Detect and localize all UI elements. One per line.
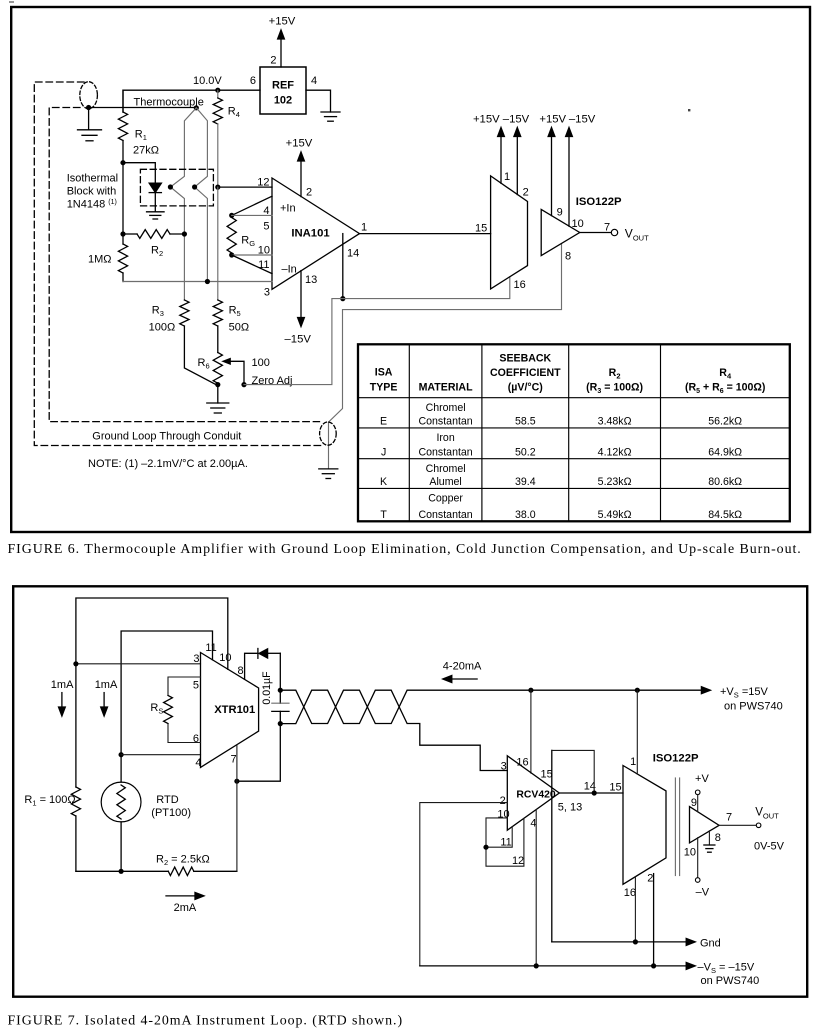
- svg-text:5: 5: [263, 220, 269, 232]
- svg-text:–In: –In: [282, 263, 297, 275]
- wire RCV420 offset pins 10-11-12 loop: [486, 818, 524, 866]
- wire -In line (pin 3): [123, 281, 272, 283]
- twisted pair bottom conductor: [280, 690, 507, 770]
- svg-text:5, 13: 5, 13: [558, 802, 582, 814]
- wire capacitor bottom to pin 7 node: [237, 724, 280, 782]
- instrumentation amplifier U2 INA101: [272, 178, 360, 289]
- resistor R1 27k: [122, 90, 124, 112]
- wire feedback top link to pin 14: [552, 750, 594, 793]
- figure 7 frame: [13, 586, 807, 996]
- svg-text:5.23kΩ: 5.23kΩ: [598, 476, 632, 488]
- svg-text:1: 1: [630, 756, 636, 768]
- svg-text:8: 8: [237, 665, 243, 677]
- svg-text:4: 4: [263, 205, 269, 217]
- wire iso output pin 7: [580, 232, 612, 234]
- 1mA arrow (left): [61, 693, 63, 709]
- iso out -15V arrow pin 10: [568, 135, 570, 227]
- svg-text:1mA: 1mA: [51, 679, 74, 691]
- svg-text:5.49kΩ: 5.49kΩ: [598, 509, 632, 521]
- svg-text:(µV/°C): (µV/°C): [508, 382, 543, 394]
- wire XTR101 pin 7 down to bottom rail: [236, 745, 238, 872]
- svg-text:+In: +In: [280, 203, 296, 215]
- wire to diode anode: [123, 163, 155, 183]
- svg-text:80.6kΩ: 80.6kΩ: [708, 476, 742, 488]
- wire +V to pin 9: [697, 795, 699, 812]
- wire +15V to REF102 pin 2: [278, 30, 285, 67]
- svg-text:INA101: INA101: [291, 228, 329, 240]
- svg-text:4.12kΩ: 4.12kΩ: [598, 446, 632, 458]
- wire RG top to pin 4 (slant): [232, 196, 272, 215]
- node RG bottom: [229, 252, 234, 257]
- resistor R1 100 (fig7): [75, 664, 77, 787]
- wire +Vs rail: [531, 689, 703, 691]
- svg-text:Isothermal: Isothermal: [67, 173, 118, 185]
- svg-text:1MΩ: 1MΩ: [88, 254, 112, 266]
- svg-text:11: 11: [500, 836, 511, 848]
- terminal VOUT (fig7): [756, 823, 761, 828]
- wire bottom rail (R2): [76, 870, 168, 872]
- svg-text:REF: REF: [272, 80, 294, 92]
- resistor R5 50: [213, 300, 222, 326]
- node R6 bottom / ground: [215, 382, 220, 387]
- svg-text:Constantan: Constantan: [419, 509, 473, 521]
- svg-text:10.0V: 10.0V: [193, 75, 222, 87]
- wire RCV420 pin 4 drop: [535, 810, 537, 966]
- svg-text:100Ω: 100Ω: [149, 322, 176, 334]
- svg-text:ISO122P: ISO122P: [653, 753, 699, 765]
- svg-text:3: 3: [193, 653, 199, 665]
- svg-text:16: 16: [624, 887, 636, 899]
- svg-text:Constantan: Constantan: [419, 446, 473, 458]
- svg-text:8: 8: [715, 832, 721, 844]
- svg-text:–15V: –15V: [569, 113, 596, 125]
- 1mA arrow (right): [103, 693, 105, 709]
- svg-text:Ground Loop Through Conduit: Ground Loop Through Conduit: [92, 431, 241, 443]
- svg-text:1: 1: [361, 221, 367, 233]
- svg-text:T: T: [380, 509, 387, 521]
- svg-text:4-20mA: 4-20mA: [443, 661, 482, 673]
- svg-text:4: 4: [195, 757, 201, 769]
- svg-text:10: 10: [684, 847, 696, 859]
- node RCV420 pin 4 to -Vs: [534, 963, 539, 968]
- voltage reference U1 REF102: [260, 67, 306, 114]
- wire RCV420 pin 16 drop: [530, 690, 532, 773]
- resistor R3 100: [180, 300, 189, 326]
- 2mA arrow: [166, 895, 197, 897]
- svg-text:–15V: –15V: [285, 333, 312, 345]
- wire ISO122P pin 2 drop to -Vs: [653, 874, 655, 966]
- svg-text:(R3 = 100Ω): (R3 = 100Ω): [586, 382, 643, 396]
- ground (diode cathode): [147, 211, 165, 213]
- svg-text:100: 100: [252, 357, 270, 369]
- scan speck top-left: [9, 1, 14, 3]
- svg-text:2: 2: [270, 55, 276, 67]
- svg-text:102: 102: [274, 95, 292, 107]
- svg-text:1mA: 1mA: [95, 679, 118, 691]
- svg-text:13: 13: [305, 274, 317, 286]
- svg-text:–VS = –15V: –VS = –15V: [698, 962, 755, 976]
- isolation amplifier input section (ISO122P): [491, 176, 528, 289]
- svg-text:9: 9: [691, 797, 697, 809]
- svg-text:6: 6: [250, 75, 256, 87]
- svg-text:15: 15: [475, 222, 487, 234]
- iso out +15V arrow pin 9: [551, 135, 553, 216]
- svg-text:4: 4: [530, 817, 536, 829]
- node offset pins common: [483, 845, 488, 850]
- wire 10.0V line REF102 pin 6: [123, 90, 260, 112]
- svg-text:7: 7: [230, 754, 236, 766]
- node RTD bottom: [119, 869, 124, 874]
- node RCV420 pin 16 branch: [528, 688, 533, 693]
- svg-text:+V: +V: [695, 773, 709, 785]
- figure 6 frame: [11, 7, 810, 532]
- isolation amplifier input section (fig7 ISO122P): [623, 766, 666, 885]
- svg-text:–15V: –15V: [503, 113, 530, 125]
- wire loop + conductor down to capacitor: [279, 653, 281, 703]
- wire XTR101 pin 8 to loop diode: [245, 653, 257, 679]
- svg-text:3.48kΩ: 3.48kΩ: [598, 416, 632, 428]
- svg-text:on PWS740: on PWS740: [724, 701, 783, 713]
- svg-text:Thermocouple: Thermocouple: [134, 97, 204, 109]
- svg-text:RTD: RTD: [156, 794, 178, 806]
- svg-text:12: 12: [512, 855, 524, 867]
- svg-text:–V: –V: [696, 887, 710, 899]
- wire ISO122P pin 1 riser: [636, 690, 638, 774]
- wire node to INA101 pin 12: [218, 186, 272, 188]
- wire thermocouple negative lead horizontal: [89, 107, 197, 109]
- svg-text:MATERIAL: MATERIAL: [419, 382, 473, 394]
- node earth / thermocouple shield: [86, 105, 91, 110]
- svg-text:FIGURE 7. Isolated 4-20mA Inst: FIGURE 7. Isolated 4-20mA Instrument Loo…: [8, 1014, 404, 1029]
- wire INA101 output pin 1 to iso amp pin 15: [360, 233, 491, 235]
- diode D1 1N4148: [149, 183, 161, 192]
- current receiver U5 RCV420: [507, 756, 559, 830]
- svg-text:ISA: ISA: [375, 367, 393, 379]
- svg-text:50.2: 50.2: [515, 446, 536, 458]
- svg-text:16: 16: [516, 757, 528, 769]
- wire RCV420 output to ISO122P pin 15: [559, 792, 623, 794]
- wire -Vs rail: [420, 965, 687, 967]
- iso amp +15V arrow pin 1: [500, 135, 502, 184]
- svg-text:10: 10: [572, 218, 584, 230]
- svg-text:Gnd: Gnd: [700, 938, 721, 950]
- node R2 right: [182, 231, 187, 236]
- wire top loop (pin 10 supply): [76, 598, 228, 669]
- ground (R6 bottom): [217, 385, 219, 403]
- gain resistor RG: [227, 218, 236, 254]
- ground (conduit earth): [319, 468, 338, 470]
- svg-text:15: 15: [609, 781, 621, 793]
- wire output pin 7 to VOUT: [719, 824, 756, 826]
- svg-text:Alumel: Alumel: [429, 476, 461, 488]
- terminal +V: [695, 790, 700, 795]
- svg-text:Iron: Iron: [436, 432, 454, 444]
- wire ISO122P pin 16 drop to Gnd: [634, 877, 636, 942]
- svg-text:2: 2: [306, 186, 312, 198]
- svg-text:K: K: [380, 476, 387, 488]
- wire R5 to R6: [217, 326, 219, 353]
- svg-text:2: 2: [647, 872, 653, 884]
- wire RG top to pin 5: [232, 214, 272, 216]
- node ISO122P pin 1 branch: [635, 688, 640, 693]
- svg-text:NOTE: (1) –2.1mV/°C at 2.00µA.: NOTE: (1) –2.1mV/°C at 2.00µA.: [88, 458, 248, 470]
- wire pin 4: [121, 754, 200, 756]
- svg-text:on PWS740: on PWS740: [701, 975, 760, 987]
- potentiometer R6: [213, 353, 222, 384]
- svg-text:11: 11: [258, 259, 269, 271]
- svg-text:Block with: Block with: [67, 186, 117, 198]
- svg-text:50Ω: 50Ω: [229, 322, 249, 334]
- svg-text:+15V: +15V: [539, 113, 566, 125]
- svg-text:58.5: 58.5: [515, 416, 536, 428]
- node pin 4 branch: [119, 752, 124, 757]
- resistor R2 2.5k (fig7): [168, 867, 194, 875]
- node wiper to zero-adj wire: [241, 382, 246, 387]
- svg-text:(PT100): (PT100): [151, 807, 191, 819]
- dashed ground loop inner left run: [49, 108, 319, 422]
- svg-text:2: 2: [523, 186, 529, 198]
- svg-text:12: 12: [257, 177, 269, 189]
- conduit ellipse (dashed): [320, 422, 337, 445]
- scan speck right: [688, 109, 690, 111]
- svg-text:FIGURE 6. Thermocouple Amplifi: FIGURE 6. Thermocouple Amplifier with Gr…: [8, 542, 802, 557]
- node isothermal junction A: [168, 184, 173, 189]
- R6 wiper arrow: [223, 359, 230, 364]
- svg-text:R1 = 100Ω: R1 = 100Ω: [24, 794, 75, 808]
- svg-text:14: 14: [347, 248, 359, 260]
- svg-text:38.0: 38.0: [515, 509, 536, 521]
- isolation barrier bars: [674, 778, 676, 876]
- node thermocouple wire B to -In: [205, 279, 210, 284]
- resistor RS: [164, 696, 173, 724]
- conduit entry ellipse (dashed): [80, 82, 98, 109]
- svg-text:10: 10: [497, 809, 509, 821]
- RTD sensor PT100: [120, 755, 122, 782]
- wire pin 3 input: [76, 663, 201, 665]
- svg-text:J: J: [381, 446, 386, 458]
- isolation output op amp (fig7): [690, 807, 720, 843]
- wire second loop (pin 11): [121, 631, 212, 755]
- svg-text:15: 15: [541, 769, 553, 781]
- svg-text:+15V: +15V: [269, 16, 296, 28]
- node R2 left: [120, 231, 125, 236]
- node pin 14 output junction: [592, 790, 597, 795]
- resistor R2 (horizontal): [137, 230, 170, 239]
- terminal VOUT (fig6): [611, 229, 617, 235]
- svg-text:TYPE: TYPE: [370, 382, 398, 394]
- wire thermocouple wire A (left, gray): [170, 108, 196, 300]
- svg-text:RCV420: RCV420: [516, 790, 555, 801]
- svg-text:16: 16: [514, 279, 526, 291]
- reverse protection diode D2: [257, 649, 259, 659]
- svg-text:Chromel: Chromel: [426, 402, 466, 414]
- svg-text:+15V: +15V: [473, 113, 500, 125]
- INA101 -15V supply arrow pin 13: [300, 271, 302, 320]
- node twisted pair bottom: [278, 721, 283, 726]
- node left rail pin 3: [73, 661, 78, 666]
- isothermal block dashed outline: [140, 169, 213, 206]
- svg-text:0.01µF: 0.01µF: [261, 671, 273, 705]
- wire R4 to R5: [217, 187, 219, 300]
- wire RG bottom to pin 10: [232, 254, 272, 256]
- wire pin 14 feedback drop: [342, 234, 344, 299]
- svg-text:64.9kΩ: 64.9kΩ: [708, 446, 742, 458]
- svg-text:6: 6: [193, 733, 199, 745]
- svg-text:11: 11: [205, 642, 216, 654]
- wire R1 to 1M resistor: [122, 163, 124, 244]
- svg-text:10: 10: [258, 245, 270, 257]
- svg-text:56.2kΩ: 56.2kΩ: [708, 416, 742, 428]
- wire thermocouple wire B (right, gray): [195, 108, 208, 282]
- node ISO122P pin 2 to -Vs: [651, 963, 656, 968]
- wire Gnd rail: [552, 941, 687, 943]
- node RG top: [229, 213, 234, 218]
- span resistor RS loop: [168, 677, 201, 696]
- svg-text:84.5kΩ: 84.5kΩ: [708, 509, 742, 521]
- svg-text:COEFFICIENT: COEFFICIENT: [490, 367, 561, 379]
- svg-text:10: 10: [219, 652, 231, 664]
- svg-text:8: 8: [565, 250, 571, 262]
- capacitor C1 0.01uF: [272, 702, 289, 704]
- svg-text:0V-5V: 0V-5V: [754, 841, 785, 853]
- svg-text:Copper: Copper: [428, 493, 463, 505]
- node pin 16 to Gnd: [633, 939, 638, 944]
- node pin 7 / loop return: [234, 779, 239, 784]
- svg-text:2: 2: [500, 795, 506, 807]
- node isothermal junction B: [192, 184, 197, 189]
- isolation amplifier output section U3 ISO122P: [541, 209, 580, 255]
- node pin 14 to common net: [340, 296, 345, 301]
- node +In / R4 / R5 junction: [215, 185, 220, 190]
- resistor 1M: [118, 244, 127, 273]
- ground (ISO122P pin 8 fig7): [708, 831, 710, 845]
- svg-text:XTR101: XTR101: [214, 704, 255, 716]
- svg-text:Constantan: Constantan: [419, 416, 473, 428]
- wire iso amp pin 8 to conduit ground: [329, 244, 562, 469]
- svg-text:SEEBACK: SEEBACK: [499, 353, 551, 365]
- svg-text:E: E: [380, 416, 387, 428]
- two-wire transmitter U4 XTR101: [201, 653, 259, 768]
- svg-text:7: 7: [726, 812, 732, 824]
- wire pin 10 to -V: [697, 838, 699, 878]
- 4-20mA direction arrow: [450, 678, 477, 680]
- svg-text:1: 1: [504, 171, 510, 183]
- svg-text:2mA: 2mA: [174, 902, 197, 914]
- dashed ground loop outer left run: [34, 82, 321, 446]
- resistor R4: [217, 90, 219, 98]
- ground (shield at conduit entry): [88, 108, 90, 130]
- node 10.0V / R4 top: [215, 88, 220, 93]
- INA101 +15V supply arrow pin 2: [300, 159, 302, 197]
- iso amp -15V arrow pin 2: [516, 135, 518, 195]
- wire RCV420 feedback pin 15 / 5,13 to Gnd: [551, 750, 553, 942]
- svg-text:9: 9: [557, 207, 563, 219]
- wire RG bottom to pin 11 (slant): [232, 255, 272, 274]
- node twisted pair top: [278, 688, 283, 693]
- svg-text:4: 4: [311, 75, 317, 87]
- svg-text:+VS =15V: +VS =15V: [720, 686, 768, 700]
- terminal -V: [695, 878, 700, 883]
- svg-text:27kΩ: 27kΩ: [133, 145, 159, 157]
- svg-text:+15V: +15V: [286, 138, 313, 150]
- table of ISA thermocouple types: [358, 344, 790, 521]
- svg-text:ISO122P: ISO122P: [576, 196, 622, 208]
- wire RCV420 pin 2 return loop: [420, 803, 508, 966]
- svg-text:39.4: 39.4: [515, 476, 536, 488]
- wire REF102 pin 4 to ground: [306, 90, 331, 112]
- svg-text:3: 3: [501, 761, 507, 773]
- node thermocouple junction: [194, 105, 199, 110]
- svg-text:7: 7: [604, 221, 610, 233]
- node R1 bottom / diode branch: [120, 160, 125, 165]
- ground (REF102 pin 4): [321, 111, 340, 113]
- wire zero-adj common net to iso amp pin 16: [244, 277, 510, 385]
- svg-text:5: 5: [193, 679, 199, 691]
- svg-text:Chromel: Chromel: [426, 463, 466, 475]
- svg-text:3: 3: [264, 286, 270, 298]
- twisted pair top conductor: [280, 690, 531, 723]
